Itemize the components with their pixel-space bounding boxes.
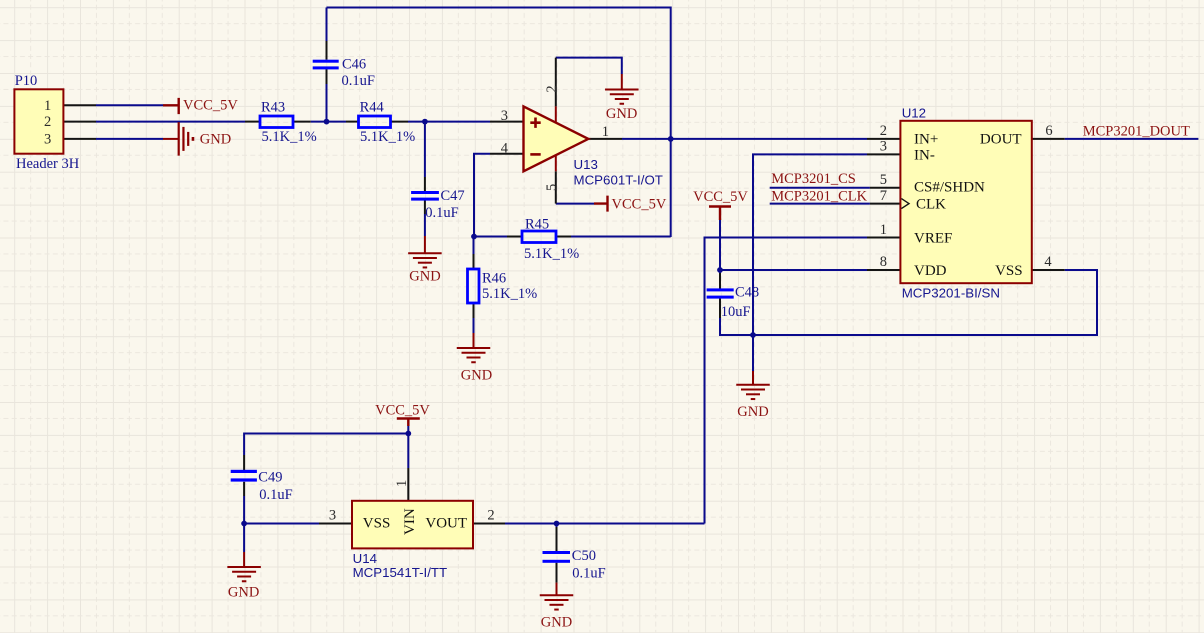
wire VDD to VCC node — [720, 269, 867, 271]
resistor R46 — [468, 269, 480, 303]
svg-text:1: 1 — [394, 480, 410, 487]
wire C50 branch — [556, 524, 558, 528]
svg-text:7: 7 — [880, 188, 887, 204]
svg-text:8: 8 — [880, 254, 887, 270]
ground GND C48 — [736, 371, 770, 399]
power VCC_5V opamp pin5 — [594, 196, 608, 212]
ground GND opamp pin2 — [605, 74, 639, 104]
svg-text:5.1K_1%: 5.1K_1% — [524, 246, 579, 262]
svg-text:VCC_5V: VCC_5V — [375, 403, 430, 419]
svg-text:P10: P10 — [15, 73, 38, 89]
opamp pin5 body segment — [555, 155, 557, 172]
svg-text:5: 5 — [544, 184, 560, 191]
svg-text:0.1uF: 0.1uF — [259, 487, 292, 503]
pin R44 left — [346, 121, 359, 123]
svg-text:VSS: VSS — [363, 516, 391, 532]
svg-text:R45: R45 — [525, 216, 549, 232]
svg-text:MCP3201_CLK: MCP3201_CLK — [771, 189, 867, 205]
svg-text:2: 2 — [44, 114, 51, 130]
node R43/R44/C46 — [324, 119, 330, 125]
pin R43 left — [245, 121, 260, 123]
svg-text:GND: GND — [606, 106, 637, 122]
svg-text:4: 4 — [501, 140, 509, 156]
pin C47 bottom — [424, 199, 426, 214]
svg-text:5: 5 — [880, 172, 887, 188]
resistor R43 — [260, 116, 293, 128]
wire opamp pin2 to GND — [556, 58, 622, 74]
svg-text:C49: C49 — [258, 470, 282, 486]
pin R46 top — [473, 254, 475, 269]
svg-text:U14: U14 — [353, 551, 377, 566]
svg-text:5.1K_1%: 5.1K_1% — [262, 129, 317, 145]
wire opamp pin5 to VCC — [556, 203, 594, 205]
svg-text:MCP3201_DOUT: MCP3201_DOUT — [1083, 123, 1190, 139]
wire output to U12 IN+ — [622, 138, 867, 140]
opamp plus sign — [530, 118, 540, 128]
connector P10 body — [14, 89, 63, 153]
pin R44 right — [391, 121, 408, 123]
wire MCP3201_CLK — [770, 203, 870, 205]
svg-text:4: 4 — [1044, 254, 1052, 270]
capacitor C47 — [411, 191, 439, 201]
svg-text:GND: GND — [461, 368, 492, 384]
svg-text:MCP3201_CS: MCP3201_CS — [771, 171, 856, 187]
svg-text:5.1K_1%: 5.1K_1% — [360, 129, 415, 145]
svg-text:IN-: IN- — [914, 147, 935, 163]
pin C50 bottom — [556, 563, 558, 583]
pin U12-2 — [867, 138, 900, 140]
svg-text:U13: U13 — [574, 157, 598, 172]
svg-text:DOUT: DOUT — [980, 132, 1022, 148]
pin opamp 3 — [490, 121, 523, 123]
svg-text:R43: R43 — [261, 100, 285, 116]
ground GND P10 pin3 sideways — [163, 122, 193, 155]
pin R45 left — [507, 236, 522, 238]
svg-text:VREF: VREF — [914, 231, 952, 247]
pin opamp 2 — [555, 58, 557, 107]
capacitor C49 — [231, 470, 257, 482]
ground GND C50 — [540, 583, 574, 610]
svg-text:VOUT: VOUT — [425, 516, 467, 532]
svg-text:2: 2 — [880, 123, 887, 139]
wire MCP3201_CS — [770, 187, 870, 189]
svg-text:VCC_5V: VCC_5V — [693, 189, 748, 205]
svg-text:U12: U12 — [902, 106, 926, 121]
svg-text:C47: C47 — [441, 188, 465, 204]
pin P10-3 — [64, 138, 97, 140]
wire P10 pin1 to VCC — [96, 104, 163, 106]
node output — [668, 136, 674, 142]
pin U14-2 — [473, 523, 505, 525]
pin U12-6 — [1032, 138, 1065, 140]
wire VREF long — [705, 238, 868, 524]
svg-text:3: 3 — [329, 508, 336, 524]
svg-text:Header 3H: Header 3H — [16, 156, 80, 172]
node VCC U14 — [405, 431, 411, 437]
pin R43 right — [293, 121, 311, 123]
svg-text:VSS: VSS — [995, 263, 1023, 279]
svg-text:CLK: CLK — [916, 197, 946, 213]
capacitor C48 — [707, 288, 734, 298]
pin C49 bottom — [243, 482, 245, 496]
ground GND R46 — [457, 333, 491, 362]
svg-text:VCC_5V: VCC_5V — [183, 98, 238, 114]
wire VOUT rail — [505, 523, 705, 525]
wire GND stem C48 — [752, 335, 754, 371]
pin R46 bottom — [473, 303, 475, 318]
wire R44 to opamp pin3 — [408, 121, 490, 123]
svg-text:MCP1541T-I/TT: MCP1541T-I/TT — [353, 565, 448, 580]
pin U14-1 top — [407, 468, 409, 501]
power VCC_5V U12/C48 — [709, 207, 731, 221]
svg-text:VCC_5V: VCC_5V — [612, 196, 667, 212]
wire R45 right feedback — [571, 236, 671, 238]
svg-text:6: 6 — [1045, 123, 1052, 139]
pin C48 top — [719, 273, 721, 289]
wire R45 left — [474, 236, 507, 238]
resistor R45 — [522, 231, 556, 243]
opamp minus sign — [530, 153, 540, 156]
clock symbol CLK pin — [901, 199, 909, 209]
node VDD/VCC/C48 — [717, 267, 723, 273]
svg-text:1: 1 — [602, 124, 609, 140]
pin R45 right — [556, 236, 571, 238]
node C49/pin3 — [241, 521, 247, 527]
capacitor C50 — [543, 551, 571, 563]
pin U12-8 — [867, 269, 900, 271]
pin U12-5 — [870, 187, 901, 189]
svg-text:3: 3 — [880, 139, 887, 155]
wire VSS return — [753, 270, 1097, 335]
wire P10 pin2 to R43 — [96, 121, 245, 123]
pin opamp 1 — [588, 138, 622, 140]
power VCC_5V U14 — [397, 419, 420, 427]
pin U12-4 VSS — [1032, 269, 1065, 271]
svg-text:IN+: IN+ — [914, 132, 938, 148]
svg-text:0.1uF: 0.1uF — [572, 566, 605, 582]
svg-text:GND: GND — [409, 269, 440, 285]
wire U14 VCC node — [244, 426, 408, 468]
ground GND C47 — [408, 236, 442, 267]
wire C46 branch upper — [326, 8, 328, 42]
pin C50 top — [556, 527, 558, 551]
svg-text:10uF: 10uF — [721, 304, 751, 320]
svg-text:C50: C50 — [572, 548, 596, 564]
wire C49 GND stem — [243, 524, 245, 553]
svg-text:1: 1 — [880, 222, 887, 238]
svg-text:C46: C46 — [342, 56, 366, 72]
svg-text:2: 2 — [544, 85, 560, 92]
wire R43 to R44 — [311, 121, 346, 123]
IC U12 body — [900, 121, 1031, 283]
ground GND C49 — [227, 552, 261, 581]
svg-text:R46: R46 — [482, 270, 506, 286]
node C50/VOUT — [554, 521, 560, 527]
svg-text:0.1uF: 0.1uF — [425, 205, 458, 221]
svg-text:0.1uF: 0.1uF — [342, 73, 375, 89]
svg-text:2: 2 — [487, 508, 494, 524]
pin P10-1 — [64, 104, 97, 106]
wire DOUT net — [1065, 138, 1199, 140]
pin U12-1 — [867, 237, 900, 239]
svg-text:3: 3 — [501, 108, 508, 124]
svg-text:C48: C48 — [735, 285, 759, 301]
svg-text:MCP601T-I/OT: MCP601T-I/OT — [574, 172, 663, 187]
pin U12-3 — [867, 153, 900, 155]
pin C48 bottom — [719, 299, 721, 318]
pin C46 bottom — [326, 69, 328, 84]
pin P10-2 — [64, 121, 97, 123]
svg-text:1: 1 — [44, 98, 51, 114]
wire opamp pin4 down to R45 node — [474, 154, 490, 237]
pin opamp 4 — [490, 153, 523, 155]
resistor R44 — [359, 116, 391, 128]
svg-text:3: 3 — [44, 131, 51, 147]
svg-text:VIN: VIN — [402, 508, 418, 535]
svg-text:GND: GND — [228, 584, 259, 600]
wire top feedback — [327, 8, 671, 238]
wire C47 branch — [424, 122, 426, 236]
power VCC_5V P10 pin1 — [163, 98, 179, 114]
svg-text:GND: GND — [541, 615, 572, 631]
wire U12 IN- down to VSS net — [753, 154, 867, 335]
svg-text:MCP3201-BI/SN: MCP3201-BI/SN — [902, 286, 1000, 301]
op-amp U13 triangle — [524, 106, 589, 171]
wire P10 pin3 to GND — [96, 138, 163, 140]
svg-text:VDD: VDD — [914, 263, 947, 279]
opamp pin2 body segment — [555, 106, 557, 123]
pin C46 top — [326, 41, 328, 60]
wire C46 branch lower — [326, 84, 328, 122]
pin C47 top — [424, 177, 426, 192]
svg-text:GND: GND — [200, 132, 231, 148]
node C47 tap — [422, 119, 428, 125]
svg-text:CS#/SHDN: CS#/SHDN — [914, 180, 985, 196]
capacitor C46 — [313, 60, 339, 70]
wire R46 branch — [473, 237, 475, 334]
node R45/R46/pin4 — [471, 234, 477, 240]
IC U14 body — [352, 501, 473, 549]
wire VCC C48 branch — [720, 220, 753, 335]
pin U12-7 — [870, 203, 901, 205]
pin opamp 5 — [555, 171, 557, 203]
svg-text:R44: R44 — [360, 100, 385, 116]
node VSS/GND/C48 — [750, 332, 756, 338]
pin C49 top — [243, 455, 245, 470]
svg-text:GND: GND — [737, 404, 768, 420]
pin U14-3 — [319, 523, 352, 525]
wire C49 bottom to pin3 rail — [244, 496, 319, 524]
svg-text:5.1K_1%: 5.1K_1% — [482, 286, 537, 302]
